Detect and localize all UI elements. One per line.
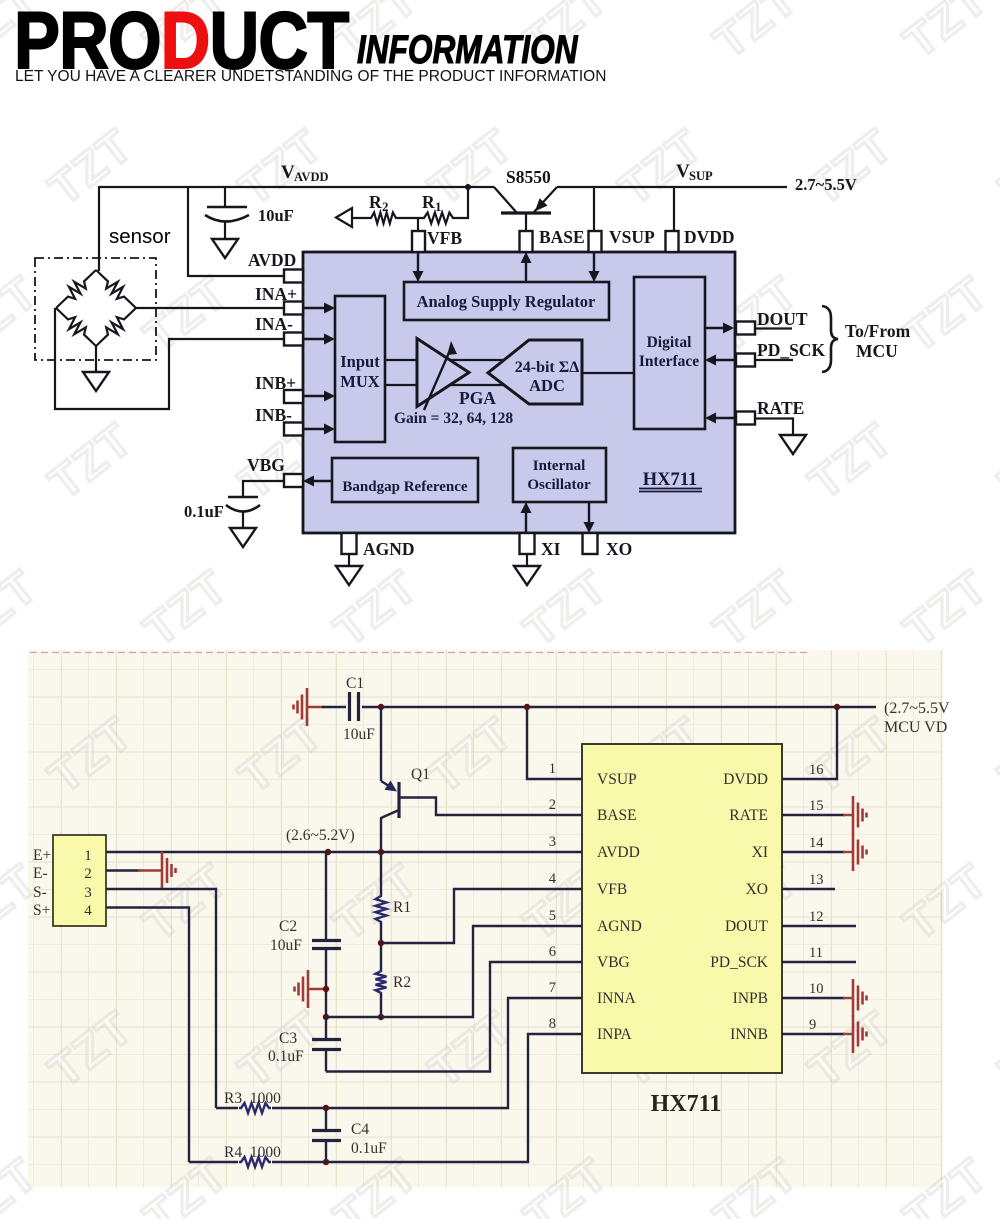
svg-text:Bandgap Reference: Bandgap Reference [342,479,467,495]
svg-text:S8550: S8550 [506,167,551,187]
svg-text:RATE: RATE [729,807,768,824]
svg-text:MUX: MUX [340,372,379,391]
svg-text:VFB: VFB [597,881,627,898]
svg-text:Oscillator: Oscillator [527,477,591,493]
svg-text:AVDD: AVDD [294,170,329,184]
svg-text:AVDD: AVDD [597,844,640,861]
svg-text:E-: E- [33,865,48,882]
svg-text:SUP: SUP [689,169,713,183]
svg-text:1: 1 [84,848,92,864]
svg-text:ADC: ADC [529,376,565,395]
svg-text:V: V [676,161,690,182]
svg-text:INB-: INB- [255,405,292,425]
svg-text:0.1uF: 0.1uF [184,502,224,521]
svg-text:2: 2 [84,866,92,882]
svg-text:BASE: BASE [539,227,585,247]
svg-text:BASE: BASE [597,807,637,824]
svg-text:PD_SCK: PD_SCK [757,340,825,360]
svg-text:2: 2 [382,199,389,214]
svg-text:8: 8 [549,1016,556,1032]
svg-text:XO: XO [746,881,768,898]
svg-text:To/From: To/From [845,321,911,341]
svg-text:R3 1000: R3 1000 [224,1090,281,1107]
svg-text:3: 3 [549,834,556,850]
svg-text:AVDD: AVDD [248,250,296,270]
svg-text:VBG: VBG [247,455,285,475]
svg-text:AGND: AGND [597,918,642,935]
svg-text:15: 15 [809,798,824,814]
svg-text:MCU: MCU [856,341,898,361]
svg-text:Digital: Digital [647,334,692,351]
svg-text:C2: C2 [279,918,297,935]
svg-text:S-: S- [33,884,47,901]
svg-text:6: 6 [549,944,556,960]
svg-text:16: 16 [809,762,824,778]
svg-text:PGA: PGA [459,388,496,408]
svg-text:14: 14 [809,835,824,851]
svg-text:DOUT: DOUT [725,918,769,935]
svg-text:E+: E+ [33,847,51,864]
svg-text:INA+: INA+ [255,284,297,304]
svg-text:5: 5 [549,908,556,924]
svg-text:1: 1 [549,761,556,777]
svg-text:sensor: sensor [109,225,171,248]
svg-text:VSUP: VSUP [597,771,637,788]
svg-text:C1: C1 [346,675,364,692]
svg-text:9: 9 [809,1017,816,1033]
svg-text:0.1uF: 0.1uF [351,1140,387,1157]
svg-text:XI: XI [541,539,561,559]
svg-text:(2.7~5.5V: (2.7~5.5V [884,700,950,717]
svg-text:XI: XI [752,844,768,861]
svg-text:24-bit ΣΔ: 24-bit ΣΔ [515,359,580,376]
svg-text:INPB: INPB [733,990,768,1007]
svg-text:Analog Supply Regulator: Analog Supply Regulator [417,292,596,311]
svg-text:DOUT: DOUT [757,309,808,329]
svg-text:Interface: Interface [639,353,699,370]
svg-text:Internal: Internal [533,458,586,474]
svg-text:4: 4 [549,871,557,887]
svg-text:INNA: INNA [597,990,637,1007]
svg-text:(2.6~5.2V): (2.6~5.2V) [286,827,355,844]
svg-text:AGND: AGND [363,539,415,559]
svg-text:7: 7 [549,980,556,996]
svg-text:12: 12 [809,909,824,925]
svg-text:R4 1000: R4 1000 [224,1144,281,1161]
svg-text:Gain = 32, 64, 128: Gain = 32, 64, 128 [394,410,513,427]
svg-text:PD_SCK: PD_SCK [710,954,769,971]
svg-text:11: 11 [809,945,823,961]
svg-text:10uF: 10uF [343,726,375,743]
svg-text:R1: R1 [393,899,411,916]
svg-text:INA-: INA- [255,314,293,334]
svg-text:INNB: INNB [730,1026,768,1043]
svg-text:4: 4 [84,903,92,919]
svg-text:XO: XO [606,539,632,559]
svg-text:MCU VD: MCU VD [884,719,947,736]
svg-text:DVDD: DVDD [684,227,735,247]
svg-text:RATE: RATE [757,398,804,418]
svg-text:10: 10 [809,981,824,997]
svg-text:V: V [281,162,295,183]
svg-text:VSUP: VSUP [609,227,655,247]
svg-text:INB+: INB+ [255,373,296,393]
svg-text:2: 2 [549,797,556,813]
svg-text:3: 3 [84,885,92,901]
svg-text:S+: S+ [33,902,50,919]
svg-text:Q1: Q1 [411,766,430,783]
svg-text:0.1uF: 0.1uF [268,1048,304,1065]
svg-text:VBG: VBG [597,954,630,971]
svg-text:C3: C3 [279,1030,297,1047]
svg-text:2.7~5.5V: 2.7~5.5V [795,175,857,194]
svg-text:DVDD: DVDD [723,771,768,788]
svg-text:Input: Input [340,352,380,371]
svg-text:HX711: HX711 [643,470,697,490]
svg-text:R: R [422,192,435,212]
svg-text:INPA: INPA [597,1026,633,1043]
svg-text:R2: R2 [393,974,411,991]
svg-text:C4: C4 [351,1121,369,1138]
svg-text:1: 1 [435,199,442,214]
svg-text:R: R [369,192,382,212]
svg-text:VFB: VFB [427,228,462,248]
svg-text:10uF: 10uF [270,937,302,954]
svg-text:10uF: 10uF [258,206,294,225]
svg-text:HX711: HX711 [651,1091,722,1117]
svg-text:13: 13 [809,872,824,888]
